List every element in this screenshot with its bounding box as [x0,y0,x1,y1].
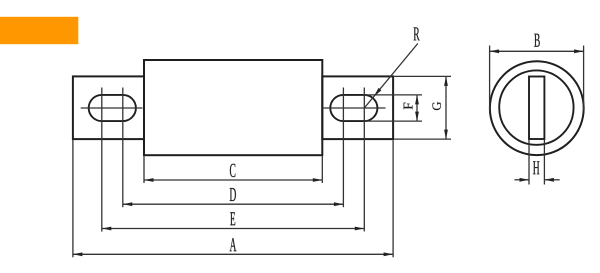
front view inner circle [499,70,573,144]
right slot inner center line vertical extension to D [342,88,344,208]
extension line circle right to B [583,46,585,112]
dimension E [102,212,365,230]
extension line left tab edge to A [72,140,74,257]
extension line slot right to H [543,140,545,185]
right tab outline [322,76,393,139]
left slot outer center line vertical extension to E [101,88,103,232]
right slot outer center line vertical extension to E [363,88,365,232]
left tab outline [73,76,144,139]
left slot center line horizontal [81,107,143,109]
left slot obround [89,95,136,121]
front view outer circle [490,61,584,155]
extension line body right edge to C [321,156,323,183]
dimension H [515,161,560,181]
extension line tab top to G [394,75,451,77]
extension line body left edge to C [143,156,145,183]
extension line slot left to H [528,140,530,185]
extension line slot top to F [365,94,422,96]
main body outline [144,60,322,155]
right slot center line horizontal [323,107,386,109]
left slot inner center line vertical extension to D [122,88,124,208]
dimension C [144,164,322,182]
dimension G [432,76,447,139]
orange logo bar [0,17,78,44]
leader line R [364,27,419,108]
extension line circle left to B [489,46,491,112]
dimension A [73,238,393,256]
extension line tab bottom to G [394,138,451,140]
dimension B [490,34,584,53]
extension line slot bottom to F [365,120,422,122]
right slot obround [330,95,377,121]
extension line right tab edge to A [392,140,394,257]
dimension F [404,95,419,121]
front view slot rectangle [529,77,544,140]
dimension D [123,188,344,206]
